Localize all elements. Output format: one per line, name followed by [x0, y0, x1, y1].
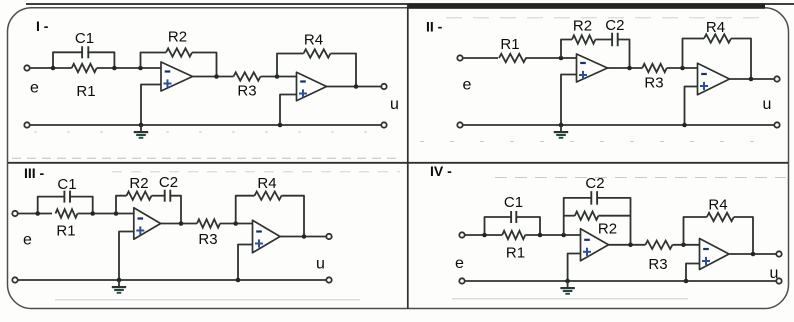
wire [465, 234, 503, 236]
ground (QIV) [560, 281, 574, 294]
divider horizontal [8, 162, 788, 164]
wire [568, 254, 581, 282]
op-amp A1 (QII) [577, 54, 608, 82]
wire [30, 67, 72, 69]
wire [485, 217, 541, 235]
svg-text:II -: II - [426, 19, 443, 35]
junction [51, 66, 56, 71]
svg-text:u: u [763, 96, 772, 113]
label III [24, 165, 45, 181]
label u (QII) [763, 96, 772, 113]
label e (QIII) [23, 232, 32, 249]
resistor R1 (QIV) [502, 231, 525, 262]
junction [117, 278, 122, 283]
wire [685, 87, 698, 126]
svg-text:R4: R4 [708, 197, 727, 214]
wire [327, 86, 382, 88]
wire [463, 57, 498, 59]
wire [525, 57, 576, 59]
wire [141, 53, 167, 69]
capacitor C2 (QIV) [585, 175, 604, 205]
label I [36, 18, 49, 34]
wire [609, 244, 646, 246]
svg-text:C2: C2 [159, 174, 178, 191]
label u (QI) [390, 96, 399, 113]
wire [683, 39, 705, 69]
ground (QIII) [112, 280, 126, 293]
svg-text:R1: R1 [500, 36, 519, 53]
svg-text:u: u [390, 96, 399, 113]
resistor R4 (QIV) [707, 197, 734, 222]
svg-text:R1: R1 [76, 83, 95, 100]
resistor R2 (QII) [572, 18, 595, 44]
wire [53, 52, 114, 68]
wire [30, 124, 382, 126]
wire [561, 75, 577, 126]
junction [680, 66, 685, 71]
wire [18, 279, 327, 281]
junction [214, 74, 219, 79]
node u- terminal (QII) [774, 122, 779, 127]
svg-text:C2: C2 [605, 17, 624, 34]
label IV [430, 163, 452, 179]
wire [97, 67, 161, 69]
node u terminal (QI) [381, 84, 386, 89]
wire [238, 245, 253, 281]
junction [302, 234, 307, 239]
wire [686, 264, 700, 282]
node e terminal (QI) [24, 65, 29, 70]
capacitor C2 (QII) [605, 17, 624, 46]
wire [161, 223, 197, 225]
resistor R4 (QI) [304, 32, 331, 58]
wire [672, 244, 699, 246]
junction [682, 123, 687, 128]
junction [179, 221, 184, 226]
wire [170, 196, 181, 224]
wire [465, 280, 777, 282]
svg-text:R4: R4 [257, 175, 276, 192]
junction [35, 211, 40, 216]
ground (QI) [134, 125, 148, 138]
svg-text:R4: R4 [304, 32, 323, 49]
wire [119, 232, 134, 281]
resistor R1 (QI) [72, 64, 97, 100]
svg-text:III -: III - [24, 165, 45, 181]
wire [220, 223, 253, 225]
wire [561, 40, 572, 59]
wire [116, 196, 127, 214]
op-amp A1 (QI) [161, 62, 193, 91]
resistor R2 (QIII) [127, 175, 152, 200]
wire [618, 40, 630, 69]
resistor R3 (QI) [234, 72, 261, 99]
wire [192, 53, 217, 77]
wire [729, 78, 774, 80]
wire [595, 39, 612, 41]
divider vertical [407, 4, 409, 309]
junction [681, 243, 686, 248]
svg-text:e: e [455, 255, 464, 272]
wire [734, 217, 753, 254]
junction [482, 233, 487, 238]
svg-text:I -: I - [36, 18, 49, 34]
label II [426, 19, 443, 35]
op-amp A2 (QIV) [700, 239, 730, 270]
wire [236, 196, 255, 224]
wire [152, 195, 165, 197]
junction [627, 66, 632, 71]
node u- terminal (QIV) [776, 278, 781, 283]
svg-text:C1: C1 [75, 30, 94, 47]
wire [667, 67, 698, 69]
node u terminal (QIV) [776, 251, 781, 256]
op-amp A2 (QII) [698, 63, 730, 95]
junction [565, 279, 570, 284]
svg-text:R3: R3 [644, 75, 663, 92]
svg-text:R4: R4 [706, 19, 725, 36]
op-amp A1 (QIV) [581, 229, 609, 261]
node u terminal (QII) [774, 76, 779, 81]
wire [331, 54, 357, 87]
wire [261, 76, 297, 78]
label e (QI) [30, 80, 39, 97]
ground (QII) [554, 125, 568, 138]
wire [608, 67, 643, 69]
label e (QIV) [455, 255, 464, 272]
svg-text:e: e [23, 232, 32, 249]
capacitor C1 (QIV) [504, 194, 523, 223]
svg-text:R1: R1 [56, 223, 75, 240]
svg-text:e: e [30, 80, 39, 97]
wire [731, 39, 751, 80]
capacitor C2 (QIII) [159, 174, 178, 202]
wire [18, 213, 52, 215]
capacitor C1 (QIII) [57, 176, 76, 203]
svg-text:R2: R2 [598, 221, 617, 238]
junction [538, 233, 543, 238]
wire [525, 234, 580, 236]
junction [236, 278, 241, 283]
junction [559, 56, 564, 61]
wire [280, 236, 326, 238]
svg-text:C1: C1 [57, 176, 76, 193]
wire [78, 213, 134, 215]
resistor R3 (QIII) [197, 219, 220, 248]
resistor R2 (QI) [166, 29, 192, 57]
svg-text:C1: C1 [504, 194, 523, 211]
node u- terminal (QI) [381, 122, 386, 127]
op-amp A2 (QI) [297, 72, 327, 101]
junction [233, 221, 238, 226]
svg-text:e: e [463, 77, 472, 94]
junction [114, 211, 119, 216]
node u- terminal (QIII) [326, 277, 331, 282]
node e- terminal (QIV) [459, 278, 464, 283]
wire [282, 196, 305, 237]
resistor R3 (QIV) [645, 241, 672, 273]
wire [684, 217, 707, 245]
wire [564, 215, 631, 217]
junction [139, 123, 144, 128]
svg-text:R1: R1 [506, 245, 525, 262]
node e terminal (QIII) [12, 211, 17, 216]
wire [463, 124, 775, 126]
junction [138, 66, 143, 71]
junction [278, 123, 283, 128]
op-amp A2 (QIII) [253, 220, 281, 253]
wire [141, 85, 161, 126]
junction [561, 233, 566, 238]
resistor R1 (QIII) [56, 209, 78, 239]
wire [277, 54, 304, 77]
svg-text:R3: R3 [237, 83, 256, 100]
junction [112, 66, 117, 71]
junction [628, 243, 633, 248]
svg-text:R2: R2 [573, 18, 592, 35]
junction [90, 211, 95, 216]
resistor R3 (QII) [642, 64, 666, 92]
svg-text:IV -: IV - [430, 163, 452, 179]
wire [730, 253, 777, 255]
wire [38, 197, 93, 214]
svg-text:R3: R3 [198, 231, 217, 248]
label u (QIII) [316, 256, 325, 273]
svg-text:R3: R3 [648, 256, 667, 273]
node e terminal (QIV) [459, 232, 464, 237]
label u (QIV) [770, 265, 779, 282]
label e (QII) [463, 77, 472, 94]
junction [751, 252, 756, 257]
svg-text:C2: C2 [585, 175, 604, 192]
svg-text:R2: R2 [168, 29, 187, 46]
capacitor C1 (QI) [75, 30, 94, 58]
svg-text:u: u [316, 256, 325, 273]
node e- terminal (QIII) [12, 277, 17, 282]
op-amp A1 (QIII) [134, 208, 161, 240]
node e- terminal (QI) [24, 122, 29, 127]
node e- terminal (QII) [457, 122, 462, 127]
resistor R2 (QIV) [575, 212, 617, 238]
junction [749, 77, 754, 82]
junction [559, 123, 564, 128]
wire [280, 95, 297, 126]
resistor R1 (QII) [499, 36, 526, 62]
node e terminal (QII) [457, 55, 462, 60]
wire [564, 198, 631, 245]
junction [354, 84, 359, 89]
junction [275, 74, 280, 79]
resistor R4 (QII) [704, 19, 731, 43]
node u terminal (QIII) [326, 234, 331, 239]
svg-text:R2: R2 [129, 175, 148, 192]
wire [193, 76, 234, 78]
junction [684, 279, 689, 284]
resistor R4 (QIII) [255, 175, 282, 200]
